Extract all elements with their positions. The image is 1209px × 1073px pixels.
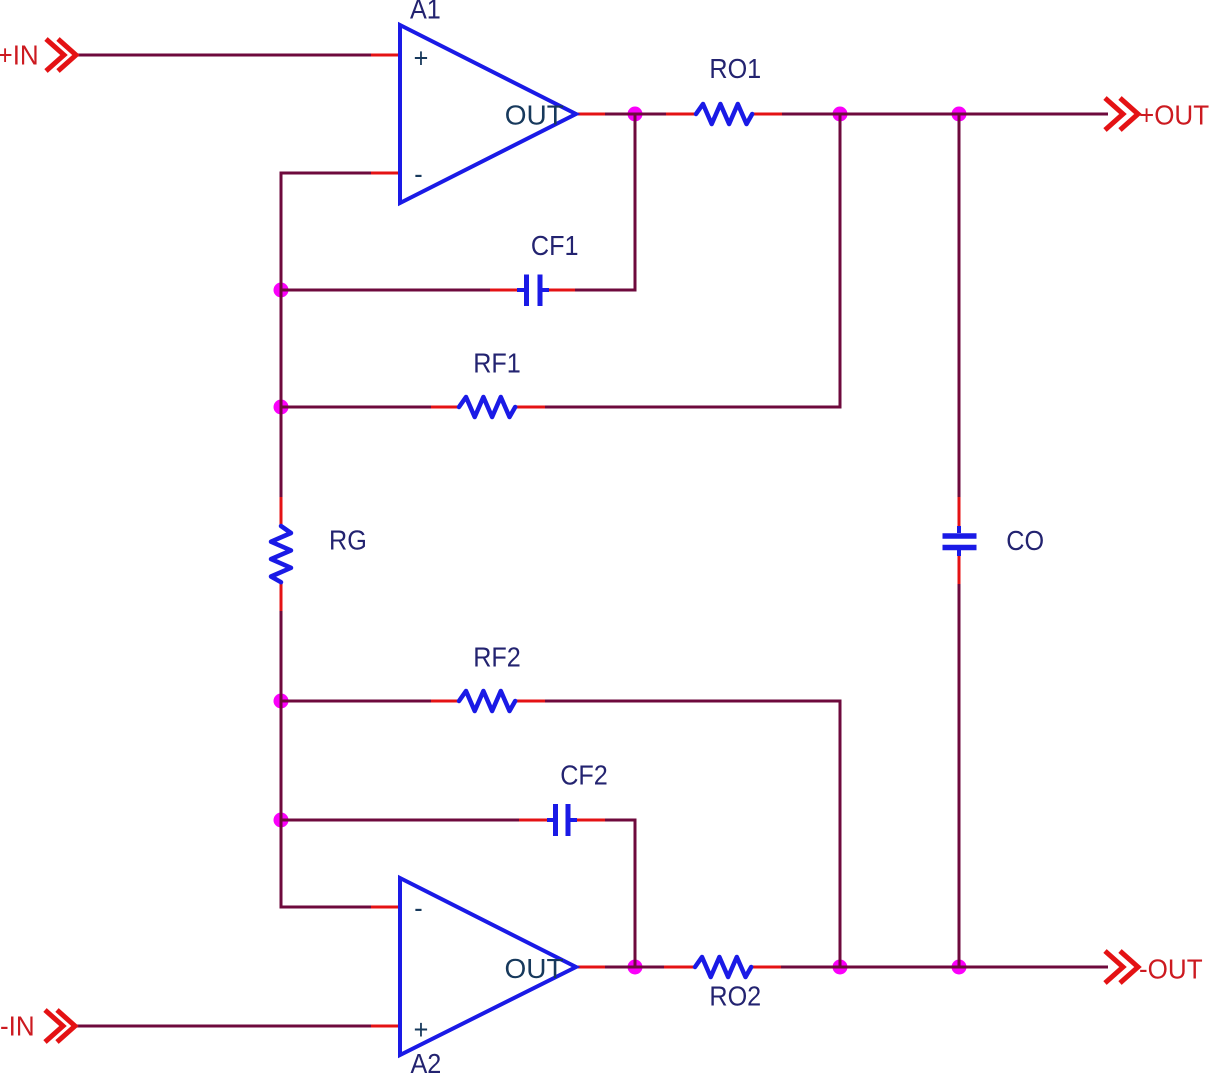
port -OUT chevron <box>1105 951 1138 983</box>
pin A2 output (red stub) <box>576 966 605 969</box>
pin RO1 right <box>752 113 782 116</box>
junction at RF2 left <box>274 694 289 709</box>
pin RO2 right <box>751 966 781 969</box>
svg-text:OUT: OUT <box>505 953 564 984</box>
wire node C to +OUT <box>958 113 1108 116</box>
wire node C down to CO top <box>958 114 961 498</box>
port +OUT chevron <box>1105 98 1138 130</box>
resistor RO1 <box>696 104 752 124</box>
svg-text:RG: RG <box>329 524 367 556</box>
pin CF2 right <box>575 819 605 822</box>
pin RO2 left <box>664 966 695 969</box>
op-amp A2 triangle <box>400 878 576 1055</box>
wire +IN to A1 noninverting pin <box>76 54 372 57</box>
pin RG bottom <box>280 582 283 611</box>
resistor RF2 <box>459 691 515 711</box>
wire node A down to CF1 right <box>573 114 635 290</box>
junction node A at A1 output <box>628 107 643 122</box>
svg-text:+OUT: +OUT <box>1139 100 1209 131</box>
capacitor CF2 <box>547 804 577 836</box>
wire node B to node C <box>840 113 960 116</box>
wire node F to -OUT <box>958 966 1108 969</box>
wire node B down to RF1 right <box>544 114 840 407</box>
pin A1 noninverting (red stub) <box>371 54 400 57</box>
resistor RO2 <box>695 957 751 977</box>
pin RG top <box>280 497 283 526</box>
junction node D at CF1 left <box>274 283 289 298</box>
pin RF1 left <box>431 406 459 409</box>
wire CO bottom to node F <box>958 583 961 967</box>
junction node C at CO top <box>952 107 967 122</box>
svg-text:A2: A2 <box>411 1048 442 1073</box>
svg-text:A1: A1 <box>410 0 441 25</box>
wire A1 inverting pin to left bus <box>281 173 372 498</box>
pin RF1 right <box>515 406 545 409</box>
wire RO2 to node G <box>780 966 841 969</box>
resistor RF1 <box>459 397 515 417</box>
wire RF2 right to node G <box>544 701 840 967</box>
capacitor CO <box>943 526 977 556</box>
svg-text:RF2: RF2 <box>473 641 521 673</box>
wire CF1 left to left bus node D <box>281 289 491 292</box>
pin CF1 left <box>490 289 521 292</box>
wire A2 output to RO2 <box>604 966 665 969</box>
junction node F at CO bottom <box>952 960 967 975</box>
pin A1 inverting (red stub) <box>371 172 400 175</box>
op-amp A1 triangle <box>400 25 576 203</box>
pin RF2 right <box>515 700 545 703</box>
svg-text:-OUT: -OUT <box>1139 954 1203 985</box>
svg-text:+IN: +IN <box>0 40 39 71</box>
svg-text:CF2: CF2 <box>560 759 608 791</box>
pin CO top <box>958 497 961 527</box>
pin RF2 left <box>431 700 459 703</box>
svg-text:RF1: RF1 <box>473 347 521 379</box>
junction at CF2 left <box>274 813 289 828</box>
port +IN chevron <box>46 39 76 71</box>
pin A2 noninverting (red stub) <box>371 1025 400 1028</box>
svg-text:RO1: RO1 <box>709 53 761 85</box>
junction node G after RO2 <box>833 960 848 975</box>
wire RF1 left to left bus node E <box>281 406 432 409</box>
wire CF2 right down to A2 output node <box>604 820 635 967</box>
wire A1 output to RO1 <box>604 113 667 116</box>
wire RF2 left from left bus <box>281 700 432 703</box>
wire RG bottom to A2 inverting pin <box>281 610 372 907</box>
svg-text:-: - <box>414 892 422 924</box>
svg-text:+: + <box>414 1014 429 1046</box>
junction node B after RO1 <box>833 107 848 122</box>
svg-text:-IN: -IN <box>0 1011 35 1042</box>
svg-text:OUT: OUT <box>505 99 564 130</box>
wire RO1 to node B <box>781 113 841 116</box>
svg-text:-: - <box>414 158 422 190</box>
svg-text:CO: CO <box>1006 525 1044 557</box>
svg-text:CF1: CF1 <box>531 230 579 262</box>
wire node G to node F <box>840 966 960 969</box>
pin A1 output (red stub) <box>576 113 605 116</box>
pin RO1 left <box>666 113 696 116</box>
pin CF1 right <box>545 289 575 292</box>
svg-text:+: + <box>414 42 429 74</box>
pin A2 inverting (red stub) <box>371 906 400 909</box>
pin CF2 left <box>519 819 550 822</box>
wire -IN to A2 noninverting pin <box>75 1025 372 1028</box>
port -IN chevron <box>45 1010 75 1042</box>
resistor RG <box>271 526 291 582</box>
capacitor CF1 <box>517 275 549 307</box>
svg-text:RO2: RO2 <box>709 980 761 1012</box>
junction node E at RF1 left <box>274 400 289 415</box>
wire CF2 left from left bus <box>281 819 520 822</box>
junction at A2 output <box>628 960 643 975</box>
pin CO bottom <box>958 554 961 584</box>
